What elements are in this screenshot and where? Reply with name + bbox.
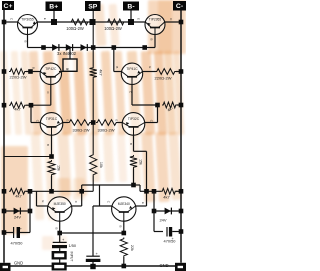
svg-text:B: B (129, 143, 133, 145)
svg-text:E: E (148, 66, 152, 68)
wire MJE350 C net vertical (81, 185, 83, 206)
svg-text:B: B (115, 66, 119, 68)
svg-text:C: C (74, 201, 78, 203)
svg-text:TIP2955: TIP2955 (149, 18, 162, 22)
node zener / vertical (28, 209, 33, 214)
node 15k right / drive net (131, 183, 136, 188)
resistor 4k7 right-top (162, 102, 177, 108)
resistor 330Ω-2W right (96, 120, 118, 126)
wire cap lead left (4, 232, 13, 234)
resistor 10k center (90, 154, 97, 177)
svg-text:SP: SP (88, 3, 98, 10)
wire Q6B/MJE340E vertical (146, 151, 148, 206)
wire MJE350 emitter (37, 205, 48, 207)
watermark (0, 0, 186, 250)
svg-text:470/50: 470/50 (11, 241, 24, 246)
transistor Q3 TIP42C (40, 63, 61, 84)
wire 15k to feedback node (51, 176, 53, 191)
terminal C+ (2, 1, 14, 10)
node C- / rail (179, 20, 184, 25)
node 4k7 right bottom (152, 189, 157, 194)
wire center rail mid (92, 79, 94, 123)
wire Q5 base down (51, 135, 53, 156)
svg-text:1/50: 1/50 (69, 243, 77, 248)
svg-text:4k7: 4k7 (15, 193, 22, 198)
wire Q4 collector down (131, 84, 133, 105)
svg-text:4k7: 4k7 (14, 107, 21, 112)
wire input boxes link (59, 260, 61, 263)
node shunt cap / ground bus (90, 264, 95, 269)
resistor 4k7 left-bottom (9, 188, 26, 194)
transistor Q6 TIP32C (122, 113, 145, 136)
wire 220Ω to Q3 base (26, 71, 31, 73)
diode D2 1N4002 (66, 44, 72, 51)
svg-text:INPUT: INPUT (70, 252, 74, 262)
node left rail / 4k7 bottom (2, 189, 7, 194)
terminal SP (85, 1, 101, 11)
node right rail / zener (179, 209, 184, 214)
wire Q4 base up to bias row (113, 48, 115, 72)
wire 220Ω to rail (176, 71, 181, 73)
resistor 22k input bias (120, 238, 127, 258)
wire Q6 base down then right (133, 135, 135, 151)
svg-text:TIP42C: TIP42C (45, 67, 57, 71)
node left rail / 4k7 (2, 103, 7, 108)
input connector box upper (52, 251, 67, 260)
node right rail / 4k7 bottom (179, 189, 184, 194)
node Q5 base / 15k (49, 154, 54, 159)
svg-text:4k7: 4k7 (98, 69, 102, 75)
svg-text:GND: GND (14, 261, 23, 266)
resistor 100Ω-2W left (70, 19, 89, 25)
svg-text:TIP31C: TIP31C (46, 117, 58, 121)
resistor 220Ω-2W right (156, 69, 177, 75)
wire 15k right down (133, 169, 135, 186)
transistor Q7 MJE350 (48, 197, 72, 221)
svg-text:MJE340: MJE340 (118, 202, 130, 206)
node input / MJE350 base (57, 231, 62, 236)
wire Q3 emitter to box (59, 71, 63, 73)
transistor Q2 TIP2955 (145, 15, 165, 35)
wire node down to Q5 collector (30, 105, 32, 122)
wire cap lead left (154, 231, 163, 233)
capacitor C4 shunt (86, 255, 100, 257)
wire MJE350 collector (72, 205, 82, 207)
diode D3 1N4002 (81, 44, 87, 51)
node left rail / cap (2, 230, 7, 235)
svg-text:B: B (119, 226, 123, 228)
wire Q5 emitter (62, 122, 68, 124)
svg-text:MJE350: MJE350 (54, 202, 66, 206)
wire box stub up (69, 48, 71, 60)
wire 330Ω to Q6 (118, 122, 124, 124)
terminal B+ (46, 2, 63, 12)
wire to Q3 (31, 71, 41, 73)
wire drive net to 4k7 right (134, 184, 141, 186)
terminal B- (123, 2, 139, 11)
svg-text:TIP32C: TIP32C (128, 117, 140, 121)
wire top rail segment left (4, 21, 18, 23)
node right rail / 4k7 top (179, 103, 184, 108)
svg-text:E: E (115, 120, 119, 122)
resistor 15k left (48, 160, 55, 176)
wire top rail middle (37, 21, 145, 23)
node right rail / cap (179, 229, 184, 234)
transistor Q8 MJE340 (112, 197, 136, 221)
wire left rail (C+ net) (3, 10, 5, 263)
resistor 15k right (130, 155, 137, 169)
svg-text:C: C (169, 18, 173, 20)
node C+ / rail (2, 20, 7, 25)
component box (fuse/resistor block) (63, 59, 77, 71)
input connector box lower (52, 263, 67, 271)
wire MJE340 collector down branch (92, 206, 94, 256)
wire to coupling cap (59, 233, 61, 242)
svg-text:15k: 15k (57, 165, 61, 171)
node cross Q6B net (144, 189, 149, 194)
wire Q2 base down (154, 35, 156, 48)
ground terminal left (0, 263, 11, 271)
transistor Q1 TIP3055 (18, 15, 38, 35)
wire MJE340 emitter (136, 205, 147, 207)
svg-text:C-: C- (176, 3, 183, 10)
wire 4k7 to rail (176, 190, 181, 192)
svg-text:C: C (36, 120, 40, 122)
svg-text:GND: GND (160, 263, 169, 268)
svg-text:E: E (65, 68, 69, 70)
svg-text:4k7: 4k7 (163, 194, 170, 199)
diode ZD1 24V (14, 208, 20, 215)
wire center rail to feedback corner (92, 176, 94, 191)
svg-text:B: B (23, 41, 27, 43)
wire B- stub (130, 11, 132, 23)
wire node down to Q6 collector (157, 105, 159, 123)
svg-text:B: B (46, 144, 50, 146)
wire top rail right (165, 21, 181, 23)
svg-text:100Ω-2W: 100Ω-2W (104, 26, 122, 31)
wire cap to input box (59, 248, 61, 251)
wire bias row (44, 47, 145, 49)
wire base bus horizontal (60, 232, 124, 234)
wire MJE340 collector (93, 205, 112, 207)
terminal C- (173, 1, 186, 11)
node 15k left bottom (49, 189, 54, 194)
svg-text:C: C (107, 201, 111, 203)
svg-text:470/50: 470/50 (164, 238, 177, 243)
svg-text:E: E (41, 201, 45, 203)
wire 4k7 to rail (177, 104, 181, 106)
svg-text:B: B (55, 228, 59, 230)
wire zener row right (154, 210, 181, 212)
resistor 330Ω-2W left (68, 120, 91, 126)
wire left branch vertical (29, 191, 31, 232)
wire zener row left (4, 210, 30, 212)
wire cap lead right (172, 231, 181, 233)
wire center rail upper (SP net) (92, 11, 94, 67)
svg-text:E: E (137, 18, 141, 20)
node right rail / 220Ω (179, 69, 184, 74)
wire MJE340 C up branch (99, 185, 101, 206)
node B- (128, 19, 134, 25)
svg-text:B-: B- (127, 3, 134, 10)
svg-text:E: E (66, 120, 70, 122)
node center / 330Ω pair (91, 120, 96, 125)
resistor 100Ω-2W right (107, 19, 126, 25)
node bias left (41, 45, 46, 50)
wire feedback row (30, 190, 93, 192)
svg-text:15k: 15k (139, 159, 143, 165)
wire Q1 base down (27, 35, 29, 48)
wire right rail (C- net) (180, 11, 182, 263)
node 22k / ground bus (122, 264, 127, 269)
wire 4k7 to node (26, 190, 30, 192)
node bias / Q4 base (112, 45, 117, 50)
svg-text:220Ω-2W: 220Ω-2W (155, 76, 172, 81)
wire center rail lower (92, 123, 94, 154)
wire MJE340 base down (123, 221, 125, 233)
svg-text:B+: B+ (49, 4, 58, 11)
wire cap lead right (20, 232, 30, 234)
wire bottom ground bus (11, 265, 176, 267)
wire drive net horizontal (82, 184, 134, 186)
svg-text:C: C (10, 18, 14, 20)
diode D1 1N4002 (52, 44, 58, 51)
transistor Q4 TIP41C (121, 63, 142, 84)
wire MJE350 base down (59, 221, 61, 233)
wire Q4 emitter to 220Ω right (142, 71, 155, 73)
node 4k7/Q3C/Q5C (29, 103, 34, 108)
resistor 4k7 right-bottom (161, 188, 177, 194)
node 4k7 / zener wire (28, 189, 33, 194)
diode ZD2 24V (165, 208, 171, 215)
wire 4k7 to node (26, 104, 31, 106)
svg-text:B: B (150, 39, 154, 41)
node bias right (142, 45, 147, 50)
svg-text:TIP3055: TIP3055 (21, 18, 34, 22)
svg-text:24V: 24V (159, 218, 166, 223)
svg-text:C+: C+ (4, 3, 13, 10)
wire right branch vertical (153, 191, 155, 231)
svg-text:E: E (141, 202, 145, 204)
node B+ (51, 19, 57, 25)
node MJE340 base / 22k (122, 231, 127, 236)
resistor 4k7 center (90, 67, 97, 79)
node SP (90, 19, 96, 25)
svg-text:330Ω-2W: 330Ω-2W (73, 128, 90, 133)
wire 22k to ground (123, 257, 125, 266)
svg-text:E: E (43, 18, 47, 20)
wire aux left to Q5 base node (4, 156, 52, 158)
svg-text:10k: 10k (99, 162, 103, 168)
svg-text:C: C (150, 120, 154, 122)
node Q4C/Q6C/4k7 (155, 103, 160, 108)
svg-text:B: B (32, 67, 36, 69)
svg-text:3x IN4002: 3x IN4002 (57, 51, 77, 56)
wire B+ stub (53, 11, 55, 22)
resistor 4k7 left (9, 102, 26, 108)
transistor Q5 TIP31C (40, 113, 63, 136)
svg-text:C: C (46, 91, 50, 93)
wire 330Ω to node (91, 122, 93, 124)
wire Q3 collector down (50, 84, 52, 105)
resistor 220Ω-2W left (9, 69, 26, 75)
node Q3 base (28, 69, 33, 74)
node cross MJE350 net (79, 189, 84, 194)
svg-text:TIP41C: TIP41C (126, 67, 138, 71)
node left rail / zener (2, 209, 7, 214)
svg-text:220Ω-2W: 220Ω-2W (10, 75, 27, 80)
node left rail / 220Ω (2, 69, 7, 74)
ground terminal right (175, 263, 186, 271)
svg-text:22k: 22k (130, 245, 134, 251)
svg-text:100Ω-2W: 100Ω-2W (66, 26, 84, 31)
wire shunt cap to ground (92, 262, 94, 266)
node bias / center rail (91, 45, 96, 50)
svg-text:330Ω-2W: 330Ω-2W (98, 128, 115, 133)
svg-text:24V: 24V (14, 215, 21, 220)
node zener right / vertical (152, 209, 157, 214)
